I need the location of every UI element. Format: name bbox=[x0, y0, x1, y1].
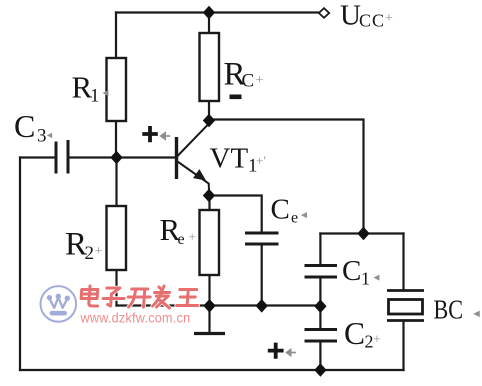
svg-text:1: 1 bbox=[90, 86, 100, 107]
svg-text:1: 1 bbox=[361, 269, 370, 289]
wire C2 top lead bbox=[319, 306, 321, 329]
watermark char wang bbox=[177, 290, 199, 306]
svg-text:CC: CC bbox=[359, 11, 385, 31]
watermark logo bar bbox=[50, 311, 67, 316]
terminal Ucc open diamond bbox=[319, 8, 329, 18]
capacitor C3 plates bbox=[56, 140, 68, 174]
svg-text:+ʹ: +ʹ bbox=[256, 153, 266, 168]
resistor RC bbox=[200, 33, 220, 101]
watermark url text bbox=[80, 310, 191, 326]
plus mark near base bbox=[142, 126, 158, 142]
svg-text:e: e bbox=[291, 210, 298, 227]
wire Re top lead bbox=[208, 196, 210, 211]
wire R1 bottom lead bbox=[115, 121, 117, 158]
wire C2 bottom lead bbox=[319, 341, 321, 370]
watermark chinese text halo + strokes bbox=[80, 286, 199, 308]
ground bbox=[194, 306, 225, 334]
watermark logo W strokes bbox=[49, 297, 67, 308]
node right column top bbox=[357, 227, 369, 241]
wire base from C3 to VT1 bbox=[68, 156, 175, 158]
wire R2 bottom lead to ground rail bbox=[115, 270, 117, 306]
crystal BC bbox=[387, 291, 424, 321]
wire emitter node to Ce bbox=[209, 196, 262, 234]
svg-text:+: + bbox=[256, 73, 264, 88]
node collector bbox=[203, 114, 215, 128]
node on supply rail bbox=[203, 6, 215, 20]
svg-text:www.dzkfw.com.cn: www.dzkfw.com.cn bbox=[80, 310, 191, 326]
wire C3 left lead bbox=[20, 156, 56, 158]
svg-text:C: C bbox=[344, 316, 365, 351]
minus mark under RC bbox=[230, 95, 242, 100]
svg-text:e: e bbox=[178, 231, 185, 248]
svg-text:+: + bbox=[95, 244, 103, 259]
wire R1 top lead bbox=[115, 13, 117, 59]
capacitor C2 plates bbox=[305, 330, 338, 342]
svg-text:C: C bbox=[271, 194, 290, 226]
svg-text:+: + bbox=[373, 333, 381, 348]
wire C1 bottom lead bbox=[319, 277, 321, 306]
wire BC top lead bbox=[402, 234, 404, 291]
wire left column down to bottom rail bbox=[19, 158, 21, 371]
wire right network top rail bbox=[320, 232, 403, 234]
capacitor C1 plates bbox=[305, 266, 338, 278]
svg-text:C: C bbox=[342, 255, 361, 287]
node Ce bottom bbox=[256, 299, 268, 313]
svg-text:◄: ◄ bbox=[101, 88, 111, 99]
svg-text:VT: VT bbox=[210, 143, 249, 175]
watermark logo W dots bbox=[47, 294, 70, 301]
wire Re bottom lead bbox=[208, 275, 210, 306]
svg-text:◄: ◄ bbox=[45, 130, 54, 140]
svg-text:+: + bbox=[189, 229, 196, 244]
label BC bbox=[434, 296, 464, 326]
wire BC bottom lead bbox=[402, 321, 404, 371]
capacitor Ce plates bbox=[245, 233, 279, 244]
node Re bottom bbox=[203, 299, 215, 313]
wire ground rail bbox=[117, 304, 321, 306]
watermark logo circle bbox=[41, 286, 77, 322]
wire top supply rail bbox=[116, 11, 320, 13]
svg-text:+: + bbox=[385, 11, 393, 26]
watermark char dian bbox=[81, 286, 99, 306]
svg-text:U: U bbox=[340, 0, 361, 32]
svg-text:C: C bbox=[242, 71, 255, 92]
wire R2 top lead bbox=[115, 158, 117, 207]
wire collector node to right column bbox=[209, 120, 364, 234]
node C1 C2 midpoint bbox=[314, 299, 326, 313]
resistor R1 bbox=[107, 58, 127, 121]
transistor VT1 bbox=[177, 124, 210, 191]
svg-text:◄: ◄ bbox=[372, 273, 382, 284]
wire RC bottom lead bbox=[208, 101, 210, 121]
svg-text:◄: ◄ bbox=[299, 210, 309, 221]
wire C1 top lead bbox=[319, 234, 321, 265]
wire RC top lead bbox=[208, 13, 210, 34]
svg-text:BC: BC bbox=[434, 296, 464, 326]
wire bottom rail bbox=[20, 369, 404, 371]
plus mark bottom bbox=[268, 343, 284, 359]
svg-text:C: C bbox=[14, 108, 35, 144]
node base bbox=[110, 151, 122, 165]
node emitter bbox=[203, 189, 215, 203]
watermark char kai bbox=[128, 289, 151, 307]
watermark char fa bbox=[152, 286, 171, 308]
wire Ce bottom lead bbox=[261, 244, 263, 306]
resistor Re bbox=[200, 210, 220, 275]
svg-text:◄: ◄ bbox=[471, 308, 482, 320]
resistor R2 bbox=[107, 206, 127, 270]
watermark char zi bbox=[103, 288, 125, 306]
svg-text:2: 2 bbox=[85, 243, 95, 264]
node C2 bottom bbox=[314, 363, 326, 377]
